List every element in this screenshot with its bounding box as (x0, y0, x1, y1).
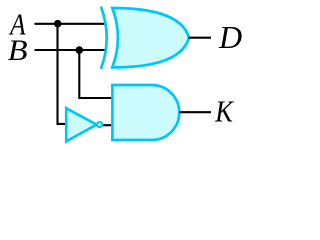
wire AND output to K (179, 111, 211, 113)
wire A to XOR top input (35, 23, 107, 25)
node junction dot on A line (54, 20, 62, 28)
wire XOR output to D (189, 37, 212, 39)
svg-text:K: K (214, 95, 234, 129)
wire from A junction down to inverter input (58, 24, 66, 124)
and gate (112, 85, 179, 140)
wire inverter output to AND bottom input (103, 124, 113, 126)
inverter bubble (97, 122, 102, 127)
xor gate input back curve (101, 7, 107, 69)
wire B to XOR bottom input (35, 49, 107, 51)
inverter triangle (66, 108, 96, 141)
svg-text:B: B (8, 33, 28, 67)
wire from B junction down and right to AND top input (79, 50, 112, 98)
node junction dot on B line (76, 46, 84, 54)
svg-text:D: D (218, 19, 242, 55)
xor gate body (112, 8, 189, 67)
